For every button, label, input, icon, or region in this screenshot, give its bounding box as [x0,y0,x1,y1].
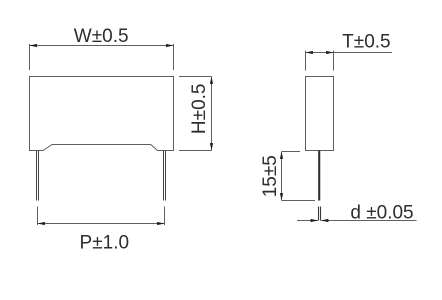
capacitor body side view outline [306,77,334,151]
lead tip detail for d dimension [319,207,321,221]
arrowhead 15±5 top [280,152,283,159]
arrowhead H bottom [210,143,213,150]
dimension 15±5 extension line bottom [282,200,316,202]
dimension H extension line bottom [179,150,212,152]
arrowhead T left [306,51,313,54]
dimension H line [211,77,213,151]
svg-text:W±0.5: W±0.5 [74,26,129,47]
dimension T extension line right [333,51,335,71]
svg-text:15±5: 15±5 [260,155,281,197]
dimension 15±5 extension line top [282,151,301,153]
arrowhead T right [326,51,333,54]
dimension P extension line left [37,207,39,226]
dimension W extension line left [29,44,31,70]
dimension d line left segment [297,220,318,222]
arrowhead H top [210,77,213,84]
capacitor body front view outline [30,77,174,151]
arrowhead d left (points right) [311,219,318,222]
right lead front view [164,151,166,201]
svg-text:d ±0.05: d ±0.05 [350,202,413,223]
dimension P extension line right [164,207,166,226]
dimension d line right segment [321,220,417,222]
arrowhead P left [38,222,45,225]
dimension H extension line top [179,76,212,78]
svg-text:P±1.0: P±1.0 [80,232,130,253]
dimension T extension line left [305,51,307,71]
svg-text:T±0.5: T±0.5 [342,31,390,52]
dimension P line [38,223,165,225]
arrowhead P right [157,222,164,225]
arrowhead W right [166,44,173,47]
dimension W line [30,45,174,47]
arrowhead W left [30,44,37,47]
dimension 15±5 line [281,152,283,201]
dimension W extension line right [173,44,175,70]
svg-text:H±0.5: H±0.5 [189,84,210,135]
arrowhead 15±5 bottom [280,193,283,200]
left lead front view [37,151,39,201]
side view lead [318,151,320,201]
dimension T line [306,52,393,54]
arrowhead d right (points left) [321,219,328,222]
